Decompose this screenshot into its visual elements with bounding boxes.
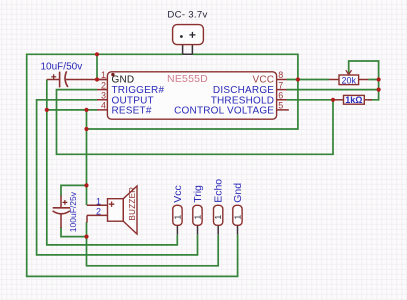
wire cap+ down and Vcc connector bbox=[47, 80, 178, 245]
svg-text:1kΩ: 1kΩ bbox=[345, 95, 362, 105]
wire buzzer minus to Echo connector bbox=[87, 222, 219, 266]
connector J1 Vcc bbox=[172, 185, 184, 234]
svg-text:DC- 3.7v: DC- 3.7v bbox=[167, 9, 207, 20]
svg-text:Gnd: Gnd bbox=[232, 183, 244, 203]
capacitor C1 10uF/50v bbox=[47, 71, 108, 87]
svg-text:1: 1 bbox=[213, 215, 223, 220]
wire VCC top rail right bbox=[87, 54, 298, 129]
wire 20k wiper loop bbox=[349, 61, 379, 80]
node vcc column / y129 bbox=[84, 127, 88, 131]
wire OUTPUT to Trig connector bbox=[37, 100, 198, 255]
svg-text:5: 5 bbox=[278, 101, 283, 111]
wire GND drop to pin1 bbox=[96, 54, 98, 79]
IC pin numbers left bbox=[101, 70, 106, 110]
svg-text:10uF/50v: 10uF/50v bbox=[41, 61, 83, 72]
IC left pin stubs bbox=[97, 80, 107, 110]
svg-text:1: 1 bbox=[173, 215, 183, 220]
connector J2 Trig bbox=[192, 185, 204, 235]
IC pin names right bbox=[174, 75, 274, 117]
wire pin6 to 1k left bbox=[287, 99, 334, 101]
op IC NE555D box bbox=[107, 72, 276, 119]
svg-text:4: 4 bbox=[101, 101, 106, 111]
node pin8 / VCC column bbox=[296, 77, 300, 81]
connector DC power bbox=[173, 25, 204, 55]
wire TRIGGER to THRESHOLD tie bbox=[57, 90, 334, 155]
svg-text:Echo: Echo bbox=[213, 179, 225, 203]
wire RESET row y110 bbox=[47, 109, 97, 111]
svg-text:2: 2 bbox=[96, 206, 101, 216]
svg-text:20k: 20k bbox=[342, 75, 357, 85]
svg-text:NE555D: NE555D bbox=[167, 73, 208, 85]
svg-text:VCC: VCC bbox=[252, 75, 274, 86]
IC right pin stubs bbox=[277, 80, 289, 110]
resistor R2 1kΩ bbox=[333, 95, 372, 105]
svg-text:1: 1 bbox=[233, 215, 243, 220]
svg-text:GND: GND bbox=[112, 75, 135, 86]
svg-text:6: 6 bbox=[278, 91, 283, 101]
buzzer LS1 bbox=[87, 186, 137, 234]
connector J4 Gnd bbox=[232, 183, 244, 235]
svg-text:7: 7 bbox=[278, 80, 283, 90]
wire pin8 to 20k bbox=[287, 79, 330, 81]
svg-text:2: 2 bbox=[101, 80, 106, 90]
node pin6 / 1k left bbox=[331, 98, 335, 102]
wire pin7 to 20k right bbox=[287, 89, 379, 91]
IC pin names left bbox=[112, 75, 165, 117]
svg-text:1: 1 bbox=[193, 215, 203, 220]
svg-text:1: 1 bbox=[101, 70, 106, 80]
node 20k right / wiper bbox=[377, 77, 381, 81]
svg-text:1: 1 bbox=[96, 196, 101, 206]
IC pin numbers right bbox=[278, 70, 283, 110]
node pin1 / cap bbox=[95, 77, 99, 81]
svg-text:3: 3 bbox=[101, 91, 106, 101]
svg-text:Trig: Trig bbox=[192, 185, 204, 203]
pin 1 marker dot bbox=[111, 73, 114, 76]
node 100uF bottom bbox=[84, 235, 88, 239]
wire GND top rail left bbox=[27, 54, 238, 276]
svg-text:Vcc: Vcc bbox=[172, 185, 184, 203]
svg-text:100uF/25v: 100uF/25v bbox=[68, 191, 78, 232]
resistor R1 20k bbox=[329, 70, 368, 85]
node 100uF top bbox=[84, 183, 88, 187]
capacitor C2 100uF/25v bbox=[53, 196, 71, 229]
svg-text:8: 8 bbox=[278, 70, 283, 80]
svg-text:RESET#: RESET# bbox=[112, 105, 152, 116]
svg-text:BUZZER: BUZZER bbox=[128, 187, 137, 221]
node pin4 / vcc column bbox=[84, 108, 88, 112]
node pin4 / cap+ bbox=[45, 108, 49, 112]
connector J3 Echo bbox=[213, 179, 225, 235]
node pin7 / 1k right bbox=[377, 88, 381, 92]
wire VCC column x86.5 bbox=[86, 110, 88, 205]
node top rail / pin1 drop bbox=[95, 52, 99, 56]
svg-text:CONTROL VOLTAGE: CONTROL VOLTAGE bbox=[174, 105, 274, 116]
wire 20k right to 1k right bbox=[368, 80, 378, 100]
wire 100uF loop bbox=[61, 185, 87, 236]
